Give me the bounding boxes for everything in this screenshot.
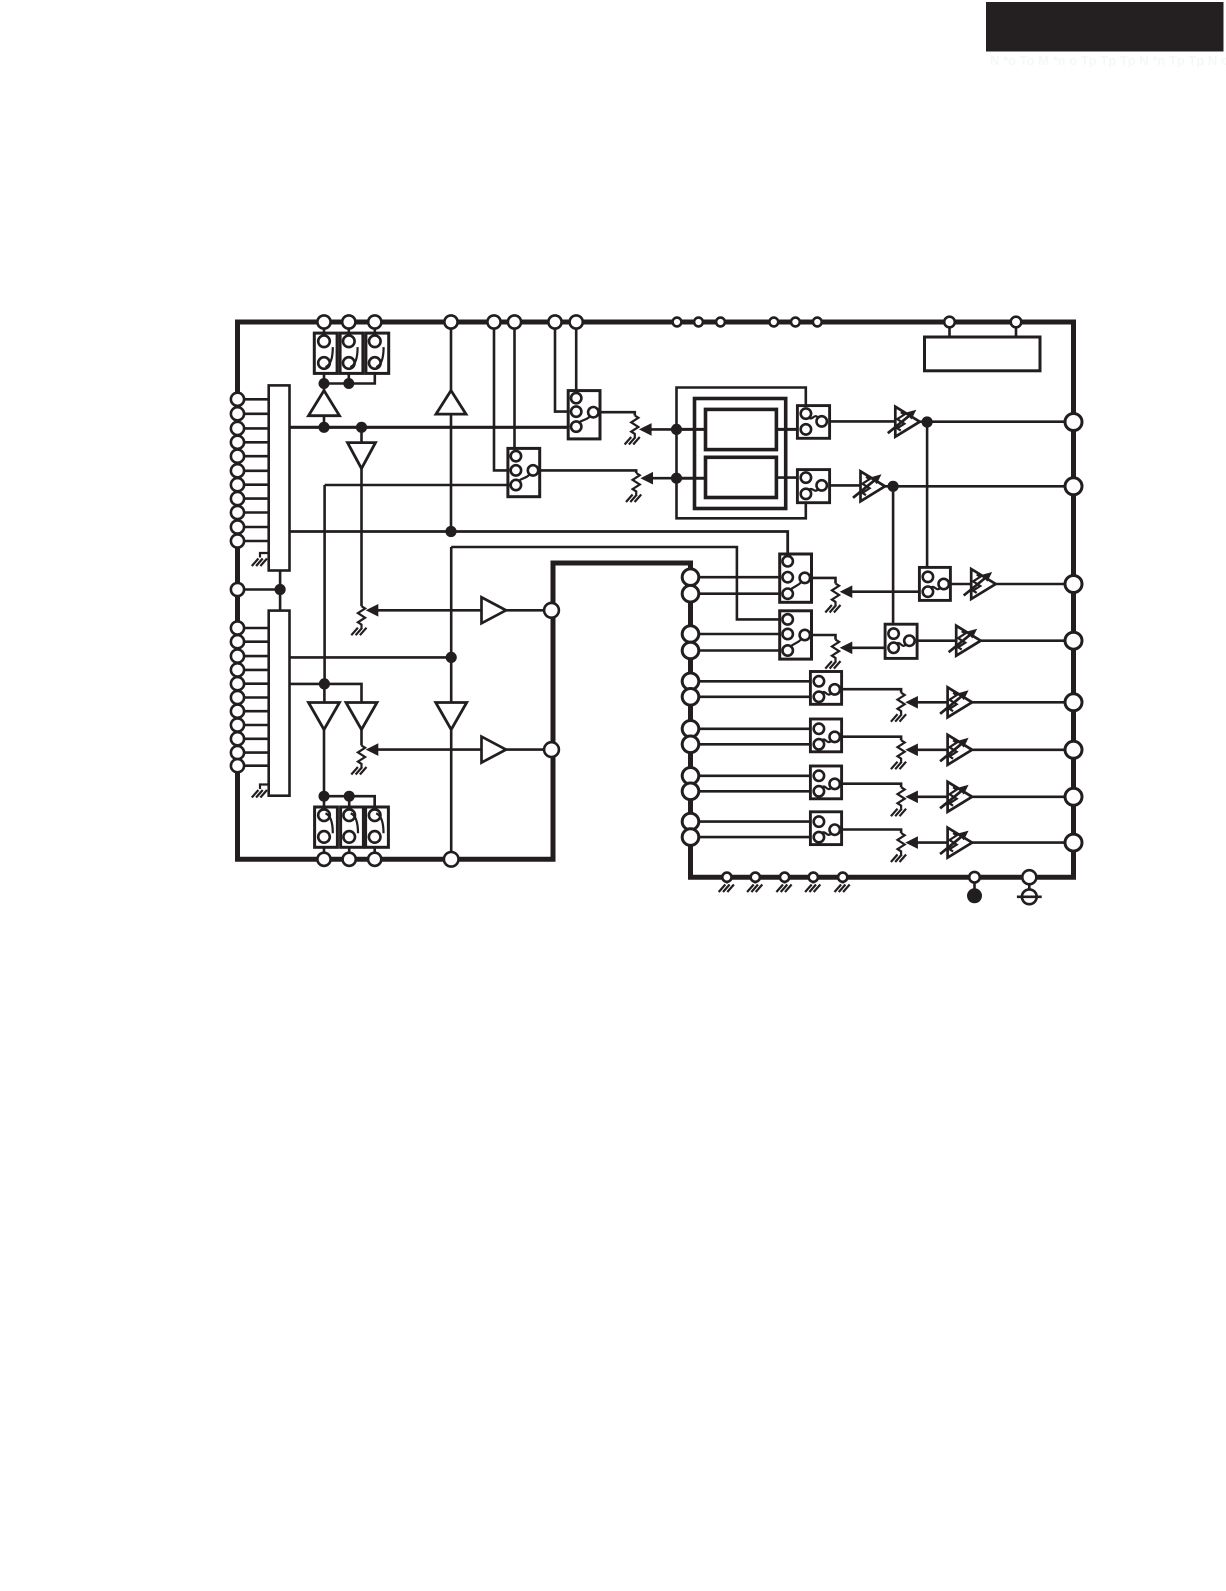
wire block1 bottom to block2 top: [279, 571, 282, 611]
wire buffer A1 to main bus: [323, 416, 326, 428]
svg-text:N *o To M *n o Tp Tp Tp N *: N *o To M *n o Tp Tp Tp N *n Tp Tp N o T…: [990, 53, 1226, 68]
junction loop / channel A: [671, 424, 682, 435]
wire SWC to amp U-A: [830, 420, 896, 423]
pin R4a (left rail of output section): [682, 721, 699, 738]
IC package outline: [238, 322, 1074, 877]
pin L21 (left edge): [231, 732, 244, 745]
wire pin R1a to switch SW1: [699, 576, 783, 579]
wire block2 out2 rail: [290, 684, 362, 703]
pin G5 (bottom edge): [838, 873, 847, 882]
input selector block 2: [269, 611, 290, 796]
pin L5 (left edge): [231, 450, 244, 463]
pin M2 (mid rail): [544, 742, 559, 757]
wire switch S2 to rec rail: [347, 373, 350, 383]
wire pin L2 to selector block 1: [242, 412, 269, 415]
pin T12 (top edge, n.c.): [769, 318, 778, 327]
switch SW2 (front R select): [780, 611, 812, 659]
wire pin L22 to selector block 2: [242, 751, 269, 754]
switch SW2b (mute): [885, 624, 917, 658]
wire ch-B node to delay B: [677, 477, 706, 480]
wire buffer A7 to pin M1: [506, 609, 545, 612]
wire switch S1 to rec rail: [323, 373, 326, 383]
pin T7 (top edge): [548, 315, 561, 328]
pin T6 (top edge): [508, 315, 521, 328]
wire rail to switch S5: [348, 796, 351, 807]
pin R2a (left rail of output section): [682, 626, 699, 643]
wire pin R3b to switch SW3: [699, 695, 815, 698]
variable amp U2: [949, 626, 1065, 656]
variable amp U5: [940, 782, 1065, 812]
pin V- (bottom edge): [1022, 870, 1036, 884]
pin T11 (top edge, n.c.): [716, 318, 725, 327]
ground (block 2): [252, 790, 267, 798]
main bus from selector block 1: [290, 426, 571, 429]
junction U-B output tap: [888, 481, 899, 492]
pin T8 (top edge): [570, 315, 583, 328]
pin L3 (left edge): [231, 422, 244, 435]
pin L9 (left edge): [231, 506, 244, 519]
wire pin L16 to selector block 2: [242, 669, 269, 672]
wire bus junction to inverter A2: [360, 427, 363, 442]
wire inverter A5 to volume VR-C: [360, 730, 363, 746]
variable amp U-B: [853, 471, 1065, 501]
pin B2 (bottom edge): [343, 853, 356, 866]
wire rail to switch S6: [373, 796, 376, 807]
pin L22 (left edge): [231, 746, 244, 759]
wire rail to buffer A1: [323, 384, 326, 391]
wire pin T3 to switch S3: [373, 329, 376, 334]
ground G3: [776, 885, 791, 893]
wire pin L12 to node: [242, 588, 280, 591]
wire pin G4 to ground: [812, 877, 814, 883]
wire pin G5 to ground: [842, 877, 844, 883]
wire U-A tap to switch SW1: [926, 422, 929, 572]
variable amp U-A: [888, 407, 1065, 437]
faint ghost text under bar: [990, 53, 1226, 68]
wire SW2b to amp U2: [917, 639, 956, 642]
wire SW3 to volume VR3: [842, 689, 902, 693]
wire pin L11 to selector block 1: [242, 540, 269, 543]
pin OUT3 (right edge): [1065, 576, 1082, 593]
pin L8 (left edge): [231, 492, 244, 505]
wire pin L8 to selector block 1: [242, 497, 269, 500]
pin R6a (left rail of output section): [682, 813, 699, 830]
wire pin L6 to selector block 1: [242, 469, 269, 472]
pin T13 (top edge, n.c.): [791, 318, 800, 327]
wire pin L23 to selector block 2: [242, 764, 269, 767]
switch SWC (ch-A bypass): [797, 406, 829, 439]
pin G4 (bottom edge): [809, 873, 818, 882]
wire pin L15 to selector block 2: [242, 655, 269, 658]
buffer amp A7: [482, 597, 507, 623]
pin B1 (bottom edge): [317, 853, 330, 866]
ground G5: [835, 885, 850, 893]
junction bus / inverter A2: [356, 422, 367, 433]
pin L11 (left edge): [231, 534, 244, 547]
wire SW1b to amp U1: [950, 583, 971, 586]
inverter A5: [346, 703, 377, 730]
pin L2 (left edge): [231, 407, 244, 420]
pin R3a (left rail of output section): [682, 673, 699, 690]
ground G1: [719, 885, 734, 893]
wire pin T7 to switch SWA mid: [555, 329, 568, 412]
wire pin L13 to selector block 2: [242, 627, 269, 630]
play rail: [324, 796, 375, 807]
pin T10 (top edge, n.c.): [694, 318, 703, 327]
wire delay B to switch SWD: [776, 476, 797, 479]
wire SWD to amp U-B: [830, 484, 861, 487]
rec-out rail: [324, 373, 375, 383]
junction inverter A6 input: [446, 652, 457, 663]
wire pin R6a to switch SW6: [699, 820, 815, 823]
volume VR3 with wiper arrow: [891, 693, 948, 722]
pin M1 (mid rail): [544, 603, 559, 618]
switch S5 (play in): [341, 807, 364, 847]
wire pin R3a to switch SW3: [699, 680, 815, 683]
wire pin L9 to selector block 1: [242, 511, 269, 514]
wire SWA output to volume VR-A: [599, 412, 635, 415]
inverter A4: [309, 703, 340, 730]
wire pin L14 to selector block 2: [242, 640, 269, 643]
wire pin T15 to control block: [948, 327, 951, 337]
ground G4: [805, 885, 820, 893]
pin R1a (left rail of output section): [682, 569, 699, 586]
pin L19 (left edge): [231, 705, 244, 718]
switch SWA (input monitor): [568, 391, 600, 439]
junction loop / channel B: [671, 473, 682, 484]
wire pin L19 to selector block 2: [242, 710, 269, 713]
pin T14 (top edge, n.c.): [813, 318, 822, 327]
wire pin T8 to switch SWA top: [575, 329, 578, 393]
pin OUT7 (right edge): [1065, 788, 1082, 805]
wire SW1 to volume VR1: [812, 578, 836, 584]
wire delay A to switch SWC: [776, 428, 797, 431]
wire pin G1 to ground: [726, 877, 728, 883]
pin L14 (left edge): [231, 635, 244, 648]
processor outer frame: [695, 399, 786, 509]
pin L20 (left edge): [231, 718, 244, 731]
wire pin T2 to switch S2: [347, 329, 350, 334]
pin R6b (left rail of output section): [682, 829, 699, 846]
wire pin L21 to selector block 2: [242, 737, 269, 740]
wire pin T4 to buffer A3: [450, 329, 453, 391]
negative supply symbol: [1017, 889, 1042, 904]
junction monitor bus / buffer A3: [445, 526, 456, 537]
control logic block: [925, 337, 1041, 371]
wire pin R5b to switch SW5: [699, 790, 815, 793]
pin OUT5 (right edge): [1065, 694, 1082, 711]
volume VR2 with wiper arrow: [825, 640, 885, 669]
pin L18 (left edge): [231, 691, 244, 704]
pin T16 (top edge): [1011, 317, 1022, 328]
pin OUT6 (right edge): [1065, 741, 1082, 758]
switch S6 (play in): [366, 807, 389, 847]
redacted title bar: [986, 2, 1224, 52]
wire block2 out1 to junction: [290, 656, 452, 659]
pin G3 (bottom edge): [780, 873, 789, 882]
junction rec rail / S2: [343, 378, 354, 389]
volume VR4 with wiper arrow: [891, 740, 948, 769]
pin T5 (top edge): [487, 315, 500, 328]
switch S2 (record out): [340, 333, 363, 373]
wire pin R2b to switch SW2: [699, 649, 781, 652]
wire switch S5 to pin B2: [348, 847, 351, 852]
feedback loop wire: [677, 388, 806, 519]
wire switch S4 to pin B1: [323, 847, 326, 852]
switch SWB (input monitor): [508, 448, 540, 496]
wire pin R4a to switch SW4: [699, 727, 815, 730]
monitor bus B: [451, 547, 781, 619]
wire inverter A2 to volume VR-D: [360, 469, 363, 607]
pin G1 (bottom edge): [722, 873, 731, 882]
pin L10 (left edge): [231, 520, 244, 533]
pin L13 (left edge): [231, 621, 244, 634]
switch SW6 (surround select): [810, 812, 841, 845]
pin L12 (left edge): [231, 583, 244, 596]
variable amp U6: [940, 828, 1065, 858]
delay block CH-A: [706, 409, 777, 449]
wire pin L10 to selector block 1: [242, 526, 269, 529]
ground (block 1): [252, 559, 267, 567]
wire pin L7 to selector block 1: [242, 483, 269, 486]
wire pin L4 to selector block 1: [242, 441, 269, 444]
riser wire to junction J5: [323, 485, 326, 684]
wire pin G2 to ground: [754, 877, 756, 883]
junction play rail / S5: [344, 791, 355, 802]
pin OUT1 (right edge): [1065, 414, 1082, 431]
buffer amp A8: [482, 737, 507, 763]
buffer amp A1 (rec out): [309, 391, 340, 416]
wire SW5 to volume VR5: [842, 784, 902, 788]
volume VR6 with wiper arrow: [891, 833, 948, 862]
wire J5 down to inverter A4: [323, 684, 326, 703]
volume VR1 with wiper arrow: [825, 584, 919, 613]
wire pin L18 to selector block 2: [242, 696, 269, 699]
pin R1b (left rail of output section): [682, 585, 699, 602]
variable amp U1: [964, 569, 1065, 599]
wire pin T1 to switch S1: [323, 329, 326, 334]
volume VR-B with wiper arrow: [626, 472, 677, 502]
pin L23 (left edge): [231, 759, 244, 772]
pin L7 (left edge): [231, 478, 244, 491]
pin V+ (bottom edge): [969, 872, 980, 883]
delay block CH-B: [706, 457, 777, 497]
pin OUT4 (right edge): [1065, 632, 1082, 649]
pin L17 (left edge): [231, 677, 244, 690]
switch S3 (record out): [366, 333, 389, 373]
wire pin R6b to switch SW6: [699, 836, 815, 839]
monitor bus A: [290, 532, 788, 557]
wire ch-A node to delay A: [677, 428, 706, 431]
wire SW4 to volume VR4: [842, 737, 902, 741]
wire pin T6 to switch SWB top: [513, 329, 516, 451]
wire pin V+ to supply dot: [973, 877, 976, 889]
wire pin R1b to switch SW1: [699, 592, 783, 595]
pin L15 (left edge): [231, 650, 244, 663]
wire pin L3 to selector block 1: [242, 427, 269, 430]
pin T9 (top edge, n.c.): [673, 318, 682, 327]
junction J5 (block2 out2): [319, 678, 330, 689]
switch S4 (play in): [315, 807, 338, 847]
switch SW5 (surround select): [810, 766, 841, 799]
wire pin L17 to selector block 2: [242, 682, 269, 685]
volume VR-A with wiper arrow: [625, 416, 677, 445]
volume VR-C with wiper arrow: [351, 743, 481, 774]
volume VR-D with wiper arrow: [351, 604, 481, 635]
wire pin L1 to selector block 1: [242, 398, 269, 401]
pin B3 (bottom edge): [368, 853, 381, 866]
wire pin T16 to control block: [1015, 327, 1018, 337]
switch SW1 (front L select): [780, 554, 812, 602]
variable amp U3: [940, 687, 1065, 717]
wire pin T5 to switch SWB mid: [494, 329, 508, 471]
switch SWD (ch-B bypass): [797, 470, 829, 503]
wire SW6 to volume VR6: [842, 830, 902, 834]
junction bus / buffer A1: [318, 422, 329, 433]
pin T4 (top edge): [444, 315, 457, 328]
junction U-A output tap: [922, 416, 933, 427]
pin R5a (left rail of output section): [682, 768, 699, 785]
inverter A6: [436, 703, 467, 730]
junction rec rail / S1: [319, 378, 330, 389]
ground G2: [747, 885, 762, 893]
pin R4b (left rail of output section): [682, 736, 699, 753]
wire rail to switch S4: [323, 796, 326, 807]
variable amp U4: [940, 735, 1065, 765]
pin L6 (left edge): [231, 464, 244, 477]
pin T15 (top edge): [944, 317, 955, 328]
input selector block 1: [269, 385, 290, 570]
wire U-B tap to switch SW2: [892, 486, 895, 628]
positive supply terminal: [967, 888, 982, 903]
wire SWB output to volume VR-B: [539, 470, 637, 473]
buffer amp A3: [436, 391, 466, 415]
wire pin L5 to selector block 1: [242, 455, 269, 458]
pin L16 (left edge): [231, 663, 244, 676]
wire buffer A8 to pin M2: [506, 748, 545, 751]
pin OUT8 (right edge): [1065, 834, 1082, 851]
wire SWB lower input from riser: [325, 484, 511, 487]
junction at pin L12 tap: [275, 584, 286, 595]
switch SW1b (mute): [919, 567, 950, 600]
pin G2 (bottom edge): [751, 873, 760, 882]
wire buffer A3 to monitor node: [450, 414, 453, 531]
switch SW3 (surround select): [810, 672, 841, 705]
wire inverter A4 to play rail: [323, 730, 326, 797]
wire switch S6 to pin B3: [373, 847, 376, 852]
pin L1 (left edge): [231, 393, 244, 406]
volume VR5 with wiper arrow: [891, 787, 948, 816]
pin R2b (left rail of output section): [682, 642, 699, 659]
pin B4 (bottom edge): [444, 852, 459, 867]
wire pin G3 to ground: [783, 877, 785, 883]
wire pin R5a to switch SW5: [699, 774, 815, 777]
pin OUT2 (right edge): [1065, 478, 1082, 495]
wire pin V- to supply symbol: [1028, 877, 1031, 889]
pin R5b (left rail of output section): [682, 783, 699, 800]
switch SW4 (surround select): [810, 719, 841, 752]
ground hook of block 1: [260, 553, 269, 558]
pin L4 (left edge): [231, 436, 244, 449]
wire monitor B down to inverter A6: [450, 547, 453, 703]
inverter A2: [348, 443, 376, 469]
wire SW2 to volume VR2: [812, 635, 836, 640]
ground hook of block 2: [260, 785, 269, 790]
wire pin R2a to switch SW2: [699, 633, 781, 636]
wire inverter A6 to pin B4: [450, 730, 453, 853]
pin T3 (top edge): [368, 315, 381, 328]
pin R3b (left rail of output section): [682, 689, 699, 706]
wire pin L20 to selector block 2: [242, 724, 269, 727]
switch S1 (record out): [314, 333, 337, 373]
pin T1 (top edge): [317, 315, 330, 328]
wire pin R4b to switch SW4: [699, 743, 815, 746]
pin T2 (top edge): [342, 315, 355, 328]
junction play rail / S4: [319, 791, 330, 802]
